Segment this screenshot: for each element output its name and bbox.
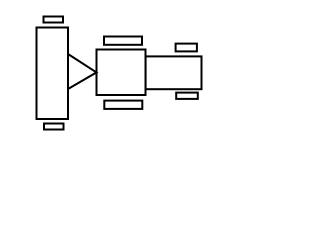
bottom-center small block (wheel) — [104, 101, 142, 109]
center square block (cab) — [97, 50, 146, 96]
top-right small block (wheel) — [176, 44, 197, 52]
top-center small block (wheel) — [104, 37, 142, 45]
left tall block (body) — [37, 28, 69, 120]
top-left small block (wheel) — [44, 17, 64, 23]
bottom-right small block (wheel) — [176, 93, 198, 99]
triangle connector — [68, 54, 97, 89]
right block (hood) — [146, 56, 202, 89]
bottom-left small block (wheel) — [44, 124, 64, 130]
